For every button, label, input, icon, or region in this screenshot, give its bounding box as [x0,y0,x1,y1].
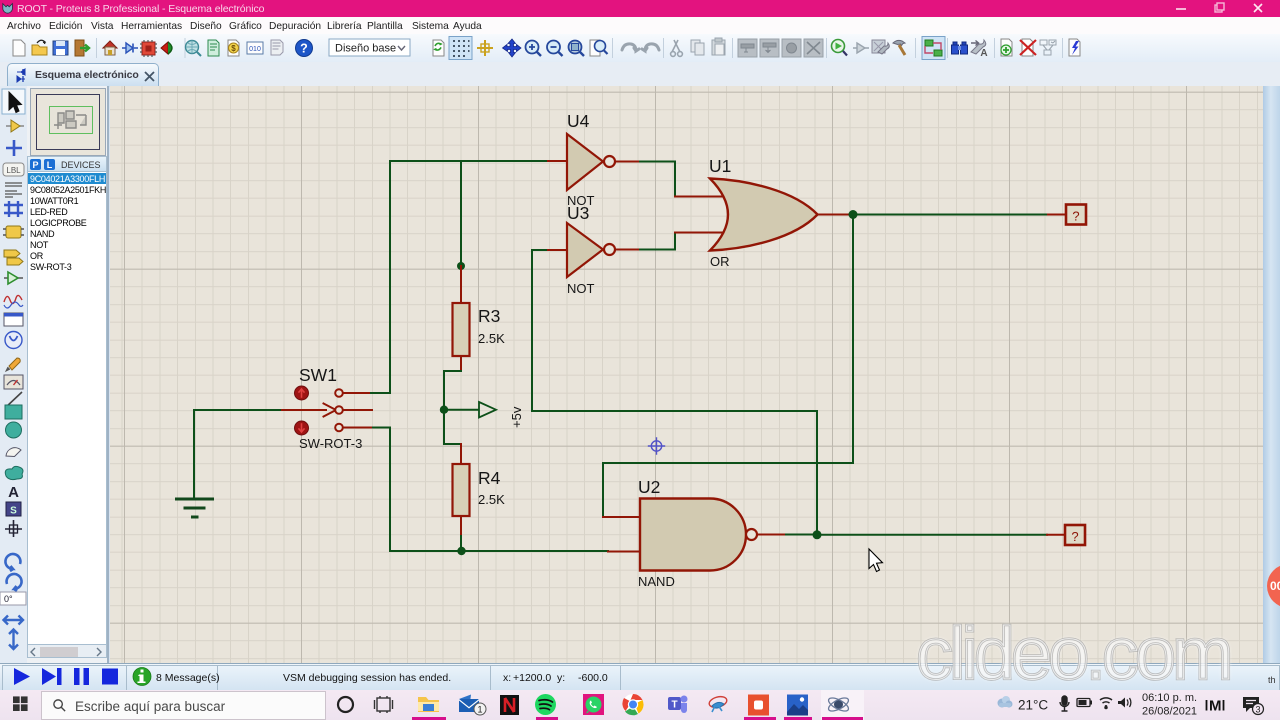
grid toggle (pressed) [449,37,472,60]
svg-text:NOT: NOT [567,281,595,296]
svg-text:2.5K: 2.5K [478,331,505,346]
task view [377,698,390,711]
goto component (disabled) [853,47,869,49]
paste (disabled) [712,40,725,55]
open folder [32,45,47,55]
wire R4 to bottom bus [460,536,462,551]
pinwheel app [708,695,728,709]
pin terminal 2 [1047,534,1065,536]
svg-text:?: ? [1071,529,1078,544]
svg-text:NAND: NAND [638,574,675,589]
svg-text:P: P [32,160,38,170]
undo (disabled) [622,44,639,51]
pin bottom contact [343,427,371,429]
pin U3 input [548,249,567,251]
svg-text:Diseño base: Diseño base [335,43,396,55]
node junction OR output [849,210,858,219]
pin U1 output [818,214,849,216]
switch actuator button down [295,421,309,435]
mail [459,695,471,703]
wire node to +5v arrow [444,409,478,411]
gerber page [208,40,219,56]
tray notification [1243,697,1259,712]
block delete (disabled) [804,39,823,57]
tray wifi [1100,698,1112,709]
wire U3 input vertical from y411 bus [532,250,817,411]
pin middle contact stub [343,409,372,411]
switch contact top [335,389,343,397]
switch actuator button up [295,386,309,400]
ERC lightning page [1069,39,1080,56]
wire U4 input horizontal [390,160,548,162]
pin U4 input [548,160,567,162]
svg-text:T: T [671,700,677,711]
pin terminal 1 [1048,214,1066,216]
cortana circle [338,697,353,712]
pin NAND input2 [608,551,640,553]
wire top contact to riser [371,392,390,394]
zoom sheet [590,40,600,56]
help [296,40,313,57]
teams [668,697,681,710]
cut (disabled) [672,40,680,52]
svg-text:?: ? [300,42,308,56]
zoom area [569,41,582,54]
svg-text:SW1: SW1 [299,365,337,385]
pin OR input1 [675,196,728,198]
node junction bottom bus [457,547,465,555]
pin U3 output [615,249,640,251]
wire jog R3 to +5v node [444,371,461,409]
save floppy [53,41,68,55]
or-gate U1 [710,179,818,251]
wire pole from ground riser [194,409,282,411]
svg-text:OR: OR [710,254,730,269]
wire NAND out to terminal [817,534,1047,536]
import door [75,40,84,56]
block copy (disabled) [738,39,757,57]
recording timer bubble [1262,560,1280,612]
refresh [433,40,444,56]
separators [97,38,1063,58]
svg-text:26/08/2021: 26/08/2021 [1142,706,1197,718]
pin R4 bottom [460,516,462,536]
edit tile wrench [872,40,885,53]
wire U3 out to OR in2 [640,233,675,250]
hammer [893,40,905,45]
tray speaker [1118,698,1125,708]
tray mic [1060,696,1069,711]
svg-text:0°: 0° [4,594,13,604]
combo Diseño base [329,39,410,56]
switch contact bottom [335,424,343,432]
tray: weather cloud [998,696,1013,708]
zoom out [547,41,560,54]
wire U4 out to OR in1 [640,162,675,197]
svg-text:2.5K: 2.5K [478,492,505,507]
node junction dot above R3 [457,262,465,270]
block rotate (disabled) [782,39,801,57]
svg-text:R4: R4 [478,468,501,488]
zoom in [526,41,539,54]
wire U3 input horizontal [532,249,548,251]
inverter U3 (NOT) [567,223,603,277]
netflix [500,695,519,715]
U3 output bubble [604,244,615,255]
pin NAND input1 [603,516,640,518]
wire jog node to R4 [444,410,461,446]
whatsapp [583,694,604,715]
photos [787,695,808,716]
svg-text:A: A [980,48,987,59]
svg-text:S: S [10,506,17,517]
wire x817 riser to NAND output [816,411,818,535]
binoculars [953,42,966,45]
svg-text:U1: U1 [709,156,731,176]
wire vertical x461 to R3 [460,161,462,266]
wire switch bottom contact down [371,428,390,552]
svg-text:A: A [8,484,19,501]
tray battery [1077,699,1090,707]
terminal ?1 [1066,205,1086,225]
svg-text:00: 00 [1270,579,1280,593]
3d viewer globe [186,41,199,54]
wire ground riser [193,410,195,498]
resistor R3 [453,303,470,356]
svg-text:21°C: 21°C [1018,698,1048,713]
recording app (orange) [748,695,769,716]
svg-text:010: 010 [249,46,261,53]
svg-text:?: ? [1072,209,1079,224]
svg-text:3: 3 [1255,705,1260,715]
svg-text:LBL: LBL [6,166,21,175]
copy (disabled) [691,40,700,52]
design explorer [271,40,283,55]
spotify underline [536,717,558,720]
simulate speaker [161,42,168,54]
explorer folder [418,697,439,712]
pin R4 top [460,444,462,464]
pin U4 output [615,161,640,163]
switch SW1 pole pin with wiper arrow [282,409,326,411]
svg-text:+5v: +5v [509,406,524,428]
zoom to child [832,40,845,53]
proteus active app [821,690,864,720]
svg-text:SW-ROT-3: SW-ROT-3 [299,436,362,451]
svg-text:R3: R3 [478,306,500,326]
svg-text:L: L [47,160,53,170]
pin R3 top [460,266,462,303]
wire OR output to terminal [853,214,1048,216]
ground symbol [177,499,213,517]
node junction +5v [440,406,448,414]
node junction NAND output [813,530,822,539]
wire OR out feedback down [603,215,853,518]
pan arrow [503,39,522,57]
pcb chip [142,42,155,55]
pin R3 bottom [460,356,462,371]
wire autorouter (pressed) [922,37,945,60]
svg-text:U4: U4 [567,111,590,131]
pin U2 output [757,534,786,536]
wire vertical x390 to switch top contact [371,161,390,393]
svg-text:1: 1 [477,705,482,715]
svg-text:U2: U2 [638,477,660,497]
new sheet [1001,39,1012,56]
switch contact middle [335,406,343,414]
chrome [623,694,644,715]
resistor R4 [453,464,470,516]
goto sheet (disabled) [1040,40,1047,45]
pin OR input2 [675,232,728,234]
terminal ?2 [1065,525,1085,545]
block move (disabled) [760,39,779,57]
home [103,41,117,48]
new document [13,40,25,56]
property assignment tool [971,40,986,54]
origin marker (blue crosshair) [649,438,665,454]
BOM $ [228,40,239,56]
nand-gate U2 [640,499,746,571]
mouse cursor [869,549,883,572]
power +5v terminal arrow [479,402,496,418]
origin crosshair [477,40,493,56]
0101 netlist [247,42,263,54]
active underline explorer [412,717,446,720]
schematic capture icon [122,47,138,49]
remove sheet [1022,39,1033,56]
pin top contact [343,392,371,394]
U2 output bubble [746,529,757,540]
wire bottom bus [390,550,608,552]
wire NAND out to junction [786,534,817,536]
inverter U4 (NOT) [567,134,603,190]
redo (disabled) [642,44,659,51]
svg-text:M: M [1209,698,1222,715]
U4 output bubble [604,156,615,167]
svg-text:$: $ [231,44,236,53]
svg-text:U3: U3 [567,203,589,223]
spotify [535,694,556,715]
